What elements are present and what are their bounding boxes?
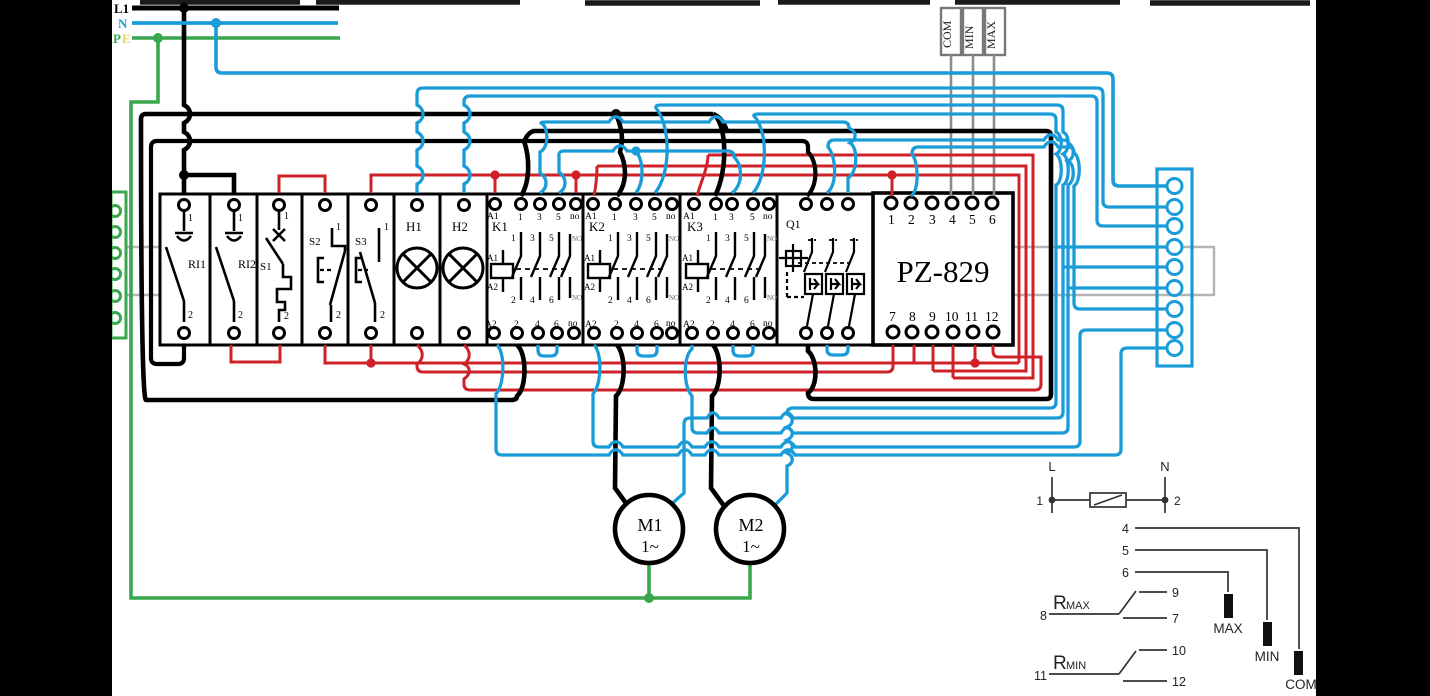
svg-text:H2: H2 <box>452 219 468 234</box>
probe label box MIN <box>963 8 983 55</box>
svg-text:4: 4 <box>1122 522 1129 536</box>
svg-text:MIN: MIN <box>962 25 976 49</box>
wire control bus from S3 top along y175 down right side to bottom terminal bus <box>371 175 1019 363</box>
node N neutral bus <box>132 21 338 25</box>
wire K3 terminal 2 down to motor M2 <box>711 345 727 510</box>
svg-text:3: 3 <box>537 213 542 223</box>
wire phase loop: K1 terminal 2 riser, left edge, top edge to K3 <box>141 114 713 400</box>
wire drop bus to K1 coil A1 <box>494 175 497 193</box>
svg-text:A1: A1 <box>584 253 595 263</box>
svg-text:2: 2 <box>284 311 289 322</box>
svg-text:2: 2 <box>514 320 519 330</box>
svg-text:2: 2 <box>608 296 613 306</box>
svg-text:N: N <box>1160 459 1169 474</box>
cell divider S3/H1 <box>393 194 396 345</box>
wire H1 bottom bus y372 to PZ terminal 7 <box>417 345 893 372</box>
DIN rail upper edge <box>121 246 1214 248</box>
svg-text:1: 1 <box>612 213 617 223</box>
main contacts K2 <box>609 232 667 300</box>
svg-text:3: 3 <box>729 213 734 223</box>
svg-text:1: 1 <box>238 213 243 224</box>
svg-text:9: 9 <box>1172 586 1179 600</box>
svg-text:no: no <box>666 212 676 222</box>
node PE bus <box>132 36 340 40</box>
indicator lamp H2 <box>443 248 483 288</box>
svg-text:5: 5 <box>556 213 561 223</box>
wire H2 bottom bus y390 to PZ terminal 12 <box>464 345 1041 390</box>
wire PZ terminal 11 riser <box>974 345 977 363</box>
terminal strip X1 <box>1157 169 1192 366</box>
svg-text:4: 4 <box>949 212 956 227</box>
probe wire COM to PZ terminal 4 <box>950 55 953 196</box>
probe wire MIN to PZ terminal 5 <box>972 55 975 196</box>
junction L1 drop <box>179 3 189 13</box>
node L1 phase bus <box>132 6 339 11</box>
wire K3 coil A1 feed line y155 to PZ terminal 10 <box>697 155 1033 378</box>
svg-text:3: 3 <box>725 234 730 244</box>
junction top edge to K2-1 <box>611 109 621 119</box>
wire drop top edge end to K3 terminal 1 <box>714 114 724 196</box>
cell divider H1/H2 <box>439 194 442 345</box>
svg-text:L: L <box>1048 459 1055 474</box>
svg-text:4: 4 <box>634 320 639 330</box>
svg-text:3: 3 <box>530 234 535 244</box>
svg-text:N: N <box>118 16 128 31</box>
DIN rail lower edge <box>121 294 1214 296</box>
wire PZ terminal 2 riser, run y147, right drop to strip circle 7 <box>911 142 1167 309</box>
svg-text:10: 10 <box>945 309 959 324</box>
svg-text:1: 1 <box>511 234 516 244</box>
wire K1 coil A2 drop, row y455 up to strip circle 9 <box>496 345 1167 455</box>
svg-text:1: 1 <box>706 234 711 244</box>
terminal 2 dot <box>1162 497 1169 504</box>
svg-text:no: no <box>763 319 773 329</box>
wire K1 terminal 3 riser, run y122 to Q1 input 3 <box>540 117 856 193</box>
junction S3 bottom <box>366 358 375 367</box>
svg-text:A2: A2 <box>683 320 695 330</box>
probe label box MAX <box>985 8 1005 55</box>
svg-text:12: 12 <box>985 309 999 324</box>
wire PZ terminal 8 riser <box>913 345 916 363</box>
svg-text:1: 1 <box>284 211 289 222</box>
svg-text:1: 1 <box>518 213 523 223</box>
motor-protection switch S1 <box>266 211 291 322</box>
PZ-829 controller box U10 <box>873 193 1013 345</box>
svg-text:5: 5 <box>652 213 657 223</box>
svg-text:1: 1 <box>336 222 341 233</box>
svg-text:A2: A2 <box>585 320 597 330</box>
relay contact RI2 <box>216 211 243 322</box>
svg-text:4: 4 <box>725 296 730 306</box>
wire stub to strip circle 4 <box>1056 245 1167 248</box>
cell divider K1/K2 <box>582 194 585 345</box>
svg-text:2: 2 <box>710 320 715 330</box>
svg-text:no: no <box>568 319 578 329</box>
wire stub to strip circle 6 <box>1068 286 1167 289</box>
svg-text:MIN: MIN <box>1255 649 1280 664</box>
wire bridge S1 top to S2 top <box>279 176 325 193</box>
wire stub to strip circle 5 <box>1063 265 1167 268</box>
svg-text:5: 5 <box>1122 544 1129 558</box>
svg-text:6: 6 <box>654 320 659 330</box>
wire L1 drop to RI1/RI2 <box>184 8 190 175</box>
junction RI1/RI2 branch <box>179 170 189 180</box>
junction y151 to K2-3 <box>631 146 640 155</box>
cell divider H2/K1 <box>486 194 489 345</box>
svg-text:3: 3 <box>929 212 936 227</box>
wire drop bus to PZ terminal 1 <box>891 175 894 196</box>
wire S3 bottom riser <box>370 345 373 363</box>
svg-text:S1: S1 <box>260 261 272 273</box>
wire jog top edge down to mid rail y131 <box>713 114 727 131</box>
svg-text:L1: L1 <box>114 1 129 16</box>
wire K2 terminal 2 down to motor M1 <box>615 345 631 510</box>
svg-text:A2: A2 <box>584 282 595 292</box>
wire bottom bus y363 S2/S3 to PZ terminals 8 and 11 <box>325 345 1019 363</box>
svg-text:6: 6 <box>1122 566 1129 580</box>
letterbox bar right <box>1316 0 1430 696</box>
svg-text:A2: A2 <box>487 282 498 292</box>
svg-text:2: 2 <box>706 296 711 306</box>
svg-text:NO: NO <box>767 235 777 243</box>
svg-text:S2: S2 <box>309 236 321 248</box>
DIN rail right end cap <box>1213 246 1215 296</box>
svg-text:RI1: RI1 <box>188 257 206 271</box>
svg-text:7: 7 <box>1172 612 1179 626</box>
junction N drop <box>211 18 221 28</box>
wire N drop and long run y73 to terminal strip circle 1 <box>216 23 1167 186</box>
junction PZ 11 riser <box>970 358 979 367</box>
svg-text:R: R <box>1053 593 1067 614</box>
svg-text:A1: A1 <box>683 212 695 222</box>
wire bridge K1 terminals 4-6 <box>538 345 557 356</box>
wire H1 top riser, run y88 to strip circle 2 <box>417 88 1167 207</box>
main contacts K3 <box>707 232 765 300</box>
svg-text:8: 8 <box>1040 609 1047 623</box>
terminal circles bottom row <box>179 326 1000 339</box>
svg-text:6: 6 <box>646 296 651 306</box>
probe wire MAX to PZ terminal 6 <box>993 55 996 196</box>
wire drop inner bus to K1 terminal 1 <box>521 141 528 196</box>
svg-text:H1: H1 <box>406 219 422 234</box>
junction M1 on PE bottom run <box>644 593 654 603</box>
wire mid rail y131 right edge and bottom to Q1 output 1 <box>533 131 1051 399</box>
svg-text:4: 4 <box>730 320 735 330</box>
svg-text:NO: NO <box>572 294 582 302</box>
wire K2 coil A1 feed line y166 to PZ terminal 9 <box>594 166 1026 371</box>
cell divider S2/S3 <box>347 194 350 345</box>
terminal 1 dot <box>1049 497 1056 504</box>
svg-text:no: no <box>570 212 580 222</box>
wire K1 terminal 5 riser, run y151 to K3 terminal 3 <box>559 146 741 193</box>
svg-text:2: 2 <box>238 310 243 321</box>
wire bridge RI2 bottom to S1 bottom <box>231 345 280 362</box>
svg-text:COM: COM <box>940 20 954 48</box>
svg-text:no: no <box>763 212 773 222</box>
svg-text:RI2: RI2 <box>238 257 256 271</box>
pushbutton S2 <box>318 228 345 322</box>
wire K3 terminal 5 riser, run y114, right drop, row y408 to motor M2 feed <box>753 114 1061 509</box>
wire K2 coil A2 drop, row y447 up to strip circle 8 <box>593 330 1167 447</box>
svg-text:MAX: MAX <box>984 21 998 49</box>
svg-text:7: 7 <box>889 309 896 324</box>
wire spur from inner bus up to mid rail <box>524 131 534 143</box>
svg-text:5: 5 <box>646 234 651 244</box>
probe electrode MIN <box>1263 622 1272 646</box>
svg-text:E: E <box>122 31 131 46</box>
svg-text:S3: S3 <box>355 236 367 248</box>
svg-text:2: 2 <box>380 310 385 321</box>
svg-text:NO: NO <box>669 294 679 302</box>
wire bridge K3 terminals 4-6 <box>733 345 753 356</box>
junction bus to K1 no <box>571 170 580 179</box>
junction bus to PZ 1 <box>887 170 896 179</box>
pushbutton S3 <box>356 228 379 322</box>
svg-text:11: 11 <box>1034 669 1047 683</box>
svg-text:11: 11 <box>965 309 978 324</box>
green PE distribution connector block <box>110 192 127 338</box>
svg-text:2: 2 <box>908 212 915 227</box>
svg-text:no: no <box>666 319 676 329</box>
wire drop y151 to K2 terminal 3 <box>636 151 642 193</box>
cell divider RI2/S1 <box>256 194 259 345</box>
svg-text:A2: A2 <box>682 282 693 292</box>
coil K2 <box>588 250 610 292</box>
svg-text:1: 1 <box>384 222 389 233</box>
svg-text:NO: NO <box>572 235 582 243</box>
svg-text:2: 2 <box>336 310 341 321</box>
svg-text:A1: A1 <box>585 212 597 222</box>
svg-text:5: 5 <box>744 234 749 244</box>
svg-text:MIN: MIN <box>1066 660 1086 672</box>
cell divider S1/S2 <box>301 194 304 345</box>
svg-text:6: 6 <box>750 320 755 330</box>
svg-text:Q1: Q1 <box>786 217 801 231</box>
svg-text:8: 8 <box>909 309 916 324</box>
svg-text:2: 2 <box>1174 494 1181 508</box>
wire inner bus: RI1 bottom to K1/Q1 feed rail y141 and drop to Q1 input 1 <box>151 141 815 364</box>
svg-text:A1: A1 <box>487 253 498 263</box>
svg-text:2: 2 <box>614 320 619 330</box>
svg-text:1~: 1~ <box>742 537 760 556</box>
wire branch to RI2 top <box>184 175 234 193</box>
svg-text:4: 4 <box>535 320 540 330</box>
svg-text:M2: M2 <box>738 515 763 535</box>
cell divider K2/K3 <box>679 194 682 345</box>
svg-text:MAX: MAX <box>1213 621 1242 636</box>
wire H2 top riser, run y96 to strip circle 3 <box>464 96 1167 226</box>
wire K2 terminal 5 riser, run y105, right drop, row y418 to motor M1 feed <box>655 105 1068 509</box>
svg-text:MAX: MAX <box>1066 600 1091 612</box>
motor M1 <box>615 495 683 563</box>
svg-text:A1: A1 <box>487 212 499 222</box>
svg-text:6: 6 <box>549 296 554 306</box>
svg-text:9: 9 <box>929 309 936 324</box>
wire Q1 input 2 riser, run y140, right drop, row y433 to K3 coil A2 <box>685 135 1073 433</box>
svg-text:5: 5 <box>969 212 976 227</box>
wire PZ terminal 9 riser <box>932 345 935 371</box>
svg-text:6: 6 <box>744 296 749 306</box>
component row enclosure <box>160 194 873 345</box>
letterbox bar left <box>0 0 112 696</box>
main contacts K1 <box>512 232 570 300</box>
svg-text:A1: A1 <box>682 253 693 263</box>
relay contact RI1 <box>166 211 193 322</box>
svg-text:10: 10 <box>1172 644 1186 658</box>
svg-text:1: 1 <box>888 212 895 227</box>
svg-text:PZ-829: PZ-829 <box>897 254 990 289</box>
svg-text:1: 1 <box>188 213 193 224</box>
cell divider K3/Q1 <box>776 194 779 345</box>
wire bridge K2 terminals 4-6 <box>637 345 657 356</box>
coil K3 <box>686 250 708 292</box>
wire M1 earth lead <box>647 563 651 598</box>
wire PZ terminal 10 riser <box>952 345 955 378</box>
svg-text:COM: COM <box>1285 677 1317 692</box>
wire PE drop to earth rail and bottom run to motors <box>131 38 750 598</box>
coil K1 <box>491 250 513 292</box>
svg-text:NO: NO <box>669 235 679 243</box>
svg-text:2: 2 <box>511 296 516 306</box>
svg-text:M1: M1 <box>637 515 662 535</box>
cell divider RI1/RI2 <box>209 194 212 345</box>
svg-text:2: 2 <box>188 310 193 321</box>
wire bridge Q1 outputs 2-3 <box>827 345 848 355</box>
torn photo edge top <box>140 2 1310 3</box>
svg-text:3: 3 <box>627 234 632 244</box>
svg-text:5: 5 <box>549 234 554 244</box>
svg-text:1: 1 <box>608 234 613 244</box>
junction PE tap <box>153 33 163 43</box>
svg-text:P: P <box>113 31 121 46</box>
junction bus to K1 A1 <box>490 170 499 179</box>
svg-text:1: 1 <box>713 213 718 223</box>
motor M2 <box>716 495 784 563</box>
probe electrode COM <box>1294 651 1303 675</box>
svg-text:4: 4 <box>627 296 632 306</box>
probe label box COM <box>941 8 961 55</box>
wire drop top edge to K2 terminal 1 <box>616 114 625 196</box>
wire RI1 top lead <box>182 175 187 193</box>
probe electrode MAX <box>1224 594 1233 618</box>
svg-text:3: 3 <box>633 213 638 223</box>
svg-text:12: 12 <box>1172 675 1186 689</box>
svg-text:R: R <box>1053 653 1067 674</box>
fuse F between 1 and 2 <box>1052 499 1090 501</box>
wire drop bus to K1 aux no <box>575 175 578 193</box>
indicator lamp H1 <box>397 248 437 288</box>
svg-text:6: 6 <box>554 320 559 330</box>
svg-text:NO: NO <box>767 294 777 302</box>
svg-text:1~: 1~ <box>641 537 659 556</box>
svg-text:A2: A2 <box>485 320 497 330</box>
svg-text:5: 5 <box>750 213 755 223</box>
svg-text:4: 4 <box>530 296 535 306</box>
terminal circles top row <box>179 197 999 211</box>
svg-text:6: 6 <box>989 212 996 227</box>
svg-text:1: 1 <box>1036 494 1043 508</box>
